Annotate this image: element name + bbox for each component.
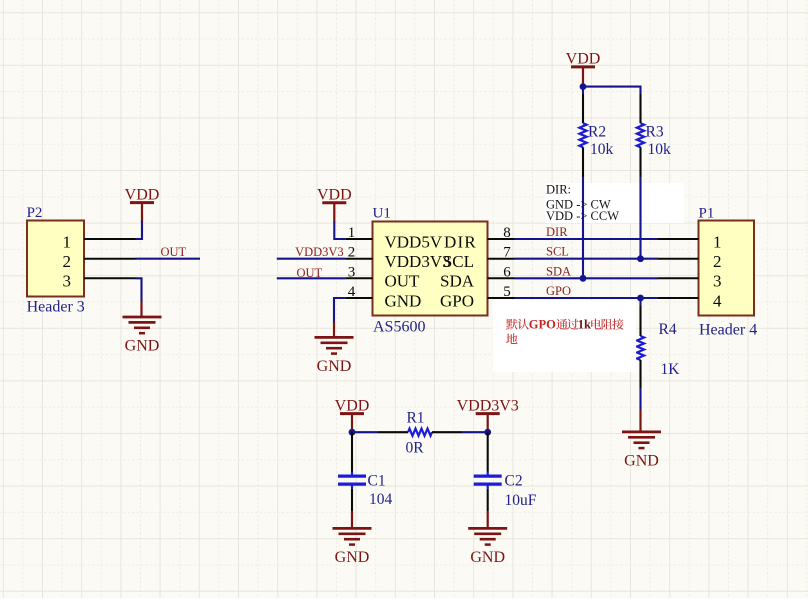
- svg-text:2: 2: [348, 245, 356, 261]
- svg-text:DIR: DIR: [444, 232, 477, 251]
- U1 designator: [373, 206, 391, 222]
- svg-text:U1: U1: [373, 206, 391, 222]
- wire U1 pin4 to GND: [334, 298, 346, 323]
- connector P2 body: [27, 221, 84, 297]
- P1 pin 2: [658, 252, 722, 271]
- note background (DIR modes): [545, 183, 684, 223]
- wire VDD node to R1: [352, 431, 378, 433]
- net label GPO: [546, 284, 571, 298]
- U1 pin 7: [443, 245, 515, 271]
- wire VDD node to R3 column: [583, 87, 641, 94]
- U1 pin 4: [346, 284, 422, 310]
- capacitor C2: [474, 472, 502, 489]
- GND stub (C2): [487, 512, 489, 529]
- svg-text:C1: C1: [368, 472, 386, 489]
- resistor R2 top lead: [582, 93, 584, 123]
- svg-text:GND: GND: [335, 549, 370, 566]
- ground GND (U1): [315, 337, 354, 375]
- svg-text:3: 3: [713, 272, 722, 291]
- svg-text:GND: GND: [385, 291, 422, 310]
- svg-text:0R: 0R: [405, 440, 424, 457]
- wire DIR: [515, 238, 659, 240]
- GND stub (C1): [351, 512, 353, 529]
- wire OUT from P2 pin2: [136, 258, 201, 260]
- svg-text:GPO: GPO: [440, 291, 474, 310]
- P1 pin 4: [658, 291, 722, 310]
- resistor R1 left lead: [378, 431, 408, 433]
- svg-text:3: 3: [348, 264, 356, 280]
- resistor R1: [408, 429, 432, 436]
- svg-text:R2: R2: [588, 123, 606, 140]
- svg-text:SDA: SDA: [546, 264, 571, 278]
- svg-text:8: 8: [503, 225, 511, 241]
- wire R2 to SDA: [582, 177, 584, 278]
- GND stub (R4): [639, 410, 641, 432]
- svg-text:GPO: GPO: [529, 318, 556, 332]
- junction GPO: [637, 295, 644, 302]
- svg-text:Header 4: Header 4: [699, 321, 757, 338]
- svg-text:GND: GND: [125, 338, 160, 355]
- svg-text:AS5600: AS5600: [373, 319, 425, 336]
- wire SCL: [515, 258, 659, 260]
- resistor R3 top lead: [639, 93, 641, 123]
- note text VDD - CCW: [546, 209, 619, 223]
- R2 designator: [588, 123, 606, 140]
- svg-text:SDA: SDA: [440, 272, 475, 291]
- svg-text:7: 7: [503, 245, 511, 261]
- svg-text:1K: 1K: [661, 361, 681, 378]
- svg-text:VDD3V3: VDD3V3: [295, 245, 344, 259]
- capacitor C1: [338, 472, 366, 489]
- VDD stub (P2): [141, 203, 143, 222]
- junction SCL: [637, 255, 644, 262]
- svg-text:C2: C2: [505, 472, 523, 489]
- svg-text:2: 2: [713, 252, 722, 271]
- U1 pin 3: [346, 264, 420, 290]
- svg-text:4: 4: [713, 291, 722, 310]
- resistor R4: [637, 336, 644, 360]
- VDD stub (filter): [351, 414, 353, 430]
- U1 pin 2: [346, 245, 451, 271]
- capacitor C2 bottom lead: [487, 489, 489, 512]
- svg-text:VDD -> CCW: VDD -> CCW: [546, 209, 619, 223]
- power port VDD3V3: [457, 397, 519, 414]
- wire R3 to SCL: [639, 177, 641, 259]
- svg-text:P2: P2: [27, 205, 43, 221]
- svg-text:Header 3: Header 3: [27, 298, 85, 315]
- svg-text:1: 1: [713, 232, 722, 251]
- R2 value 10k: [590, 141, 614, 158]
- IC U1 body: [373, 222, 488, 316]
- svg-text:DIR:: DIR:: [546, 183, 571, 197]
- resistor R2 bottom lead: [582, 147, 584, 177]
- VDD stub (pullups): [582, 67, 584, 84]
- VDD stub (U1): [333, 203, 335, 223]
- U1 pin 5: [440, 284, 515, 310]
- svg-text:VDD: VDD: [317, 187, 352, 204]
- U1 pin 8: [444, 225, 515, 251]
- svg-text:VDD: VDD: [125, 186, 160, 203]
- wire R4 to GND: [639, 388, 641, 411]
- net label DIR: [546, 225, 568, 239]
- annotation text GPO pulldown: [506, 318, 624, 344]
- wire OUT at U1 pin3: [277, 277, 346, 279]
- ground GND (P2): [123, 317, 162, 355]
- P2 pin 3: [63, 272, 136, 291]
- net label OUT (U1): [297, 266, 323, 280]
- R1 designator: [406, 410, 424, 427]
- svg-text:DIR: DIR: [546, 225, 568, 239]
- svg-text:SCL: SCL: [546, 245, 569, 259]
- capacitor C2 top lead: [487, 432, 489, 471]
- P1 value Header 4: [699, 321, 757, 338]
- resistor R3: [637, 123, 644, 147]
- wire GPO to R4: [639, 298, 641, 306]
- wire VDD3V3 at U1 pin2: [277, 258, 346, 260]
- note text DIR:: [546, 183, 571, 197]
- svg-text:2: 2: [63, 252, 72, 271]
- svg-text:P1: P1: [699, 206, 715, 222]
- svg-text:VDD: VDD: [566, 51, 601, 68]
- svg-text:3: 3: [63, 272, 72, 291]
- svg-text:10k: 10k: [648, 141, 672, 158]
- P2 designator: [27, 205, 43, 221]
- note text GND - CW: [546, 198, 611, 212]
- note background (GPO note): [493, 300, 636, 372]
- junction VDD3V3-C2-R1: [484, 429, 491, 436]
- resistor R4 top lead: [639, 306, 641, 336]
- svg-text:VDD3V3: VDD3V3: [385, 252, 451, 271]
- C2 designator: [505, 472, 523, 489]
- net label SDA: [546, 264, 571, 278]
- wire U1 pin1 to VDD: [334, 222, 345, 240]
- svg-text:GPO: GPO: [546, 284, 571, 298]
- svg-text:10k: 10k: [590, 141, 614, 158]
- C1 value 104: [369, 491, 393, 508]
- P1 pin 3: [658, 272, 722, 291]
- R3 designator: [646, 123, 664, 140]
- svg-text:R3: R3: [646, 123, 664, 140]
- svg-text:1: 1: [63, 232, 72, 251]
- svg-text:OUT: OUT: [161, 245, 187, 259]
- svg-text:SCL: SCL: [443, 252, 474, 271]
- power port VDD (U1): [317, 187, 352, 204]
- svg-text:VDD: VDD: [335, 397, 370, 414]
- U1 pin 1: [346, 225, 443, 251]
- resistor R1 right lead: [432, 431, 462, 433]
- capacitor C1 top lead: [351, 432, 353, 471]
- R1 value 0R: [405, 440, 424, 457]
- svg-text:10uF: 10uF: [505, 492, 537, 509]
- svg-text:VDD5V: VDD5V: [385, 232, 443, 251]
- connector P1 body: [699, 221, 755, 316]
- net label SCL: [546, 245, 569, 259]
- C2 value 10uF: [505, 492, 537, 509]
- P2 pin 1: [63, 232, 136, 251]
- VDD3V3 stub: [487, 414, 489, 430]
- capacitor C1 bottom lead: [351, 489, 353, 512]
- resistor R3 bottom lead: [639, 147, 641, 177]
- svg-text:OUT: OUT: [297, 266, 323, 280]
- net label VDD3V3: [295, 245, 344, 259]
- U1 value AS5600: [373, 319, 425, 336]
- wire GPO: [515, 297, 659, 299]
- junction VDD node: [580, 83, 587, 90]
- P2 value Header 3: [27, 298, 85, 315]
- power port VDD (filter): [335, 397, 370, 414]
- ground GND (C1): [333, 528, 372, 566]
- wire P2 pin1 to VDD: [136, 221, 143, 239]
- ground GND (C2): [468, 528, 507, 566]
- power port VDD (pullups): [566, 51, 601, 68]
- P1 pin 1: [658, 232, 722, 251]
- resistor R4 bottom lead: [639, 360, 641, 388]
- P2 pin 2: [63, 252, 136, 271]
- svg-text:5: 5: [503, 284, 511, 300]
- svg-text:GND: GND: [470, 549, 505, 566]
- svg-text:R1: R1: [406, 410, 424, 427]
- svg-text:GND: GND: [317, 358, 352, 375]
- ground GND (R4): [622, 432, 661, 470]
- wire VDD to R2: [582, 84, 584, 94]
- R4 value 1K: [661, 361, 681, 378]
- svg-text:6: 6: [503, 264, 511, 280]
- svg-text:4: 4: [348, 284, 356, 300]
- junction SDA: [580, 275, 587, 282]
- R4 designator: [659, 321, 677, 338]
- svg-text:OUT: OUT: [385, 272, 421, 291]
- C1 designator: [368, 472, 386, 489]
- resistor R2: [579, 123, 586, 147]
- svg-text:GND: GND: [624, 452, 659, 469]
- svg-text:1: 1: [348, 225, 356, 241]
- R3 value 10k: [648, 141, 672, 158]
- svg-text:1k: 1k: [578, 318, 591, 332]
- wire SDA: [515, 277, 659, 279]
- svg-text:104: 104: [369, 491, 393, 508]
- junction VDD-C1-R1: [349, 429, 356, 436]
- power port VDD (P2): [125, 186, 160, 203]
- U1 pin 6: [440, 264, 515, 290]
- P1 designator: [699, 206, 715, 222]
- net label OUT (P2): [161, 245, 187, 259]
- GND stub (U1): [333, 322, 335, 337]
- svg-text:R4: R4: [659, 321, 677, 338]
- wire R1 to VDD3V3 node: [462, 431, 488, 433]
- GND stub (P2): [140, 302, 142, 317]
- wire P2 pin3 to GND: [136, 278, 142, 302]
- svg-text:VDD3V3: VDD3V3: [457, 397, 519, 414]
